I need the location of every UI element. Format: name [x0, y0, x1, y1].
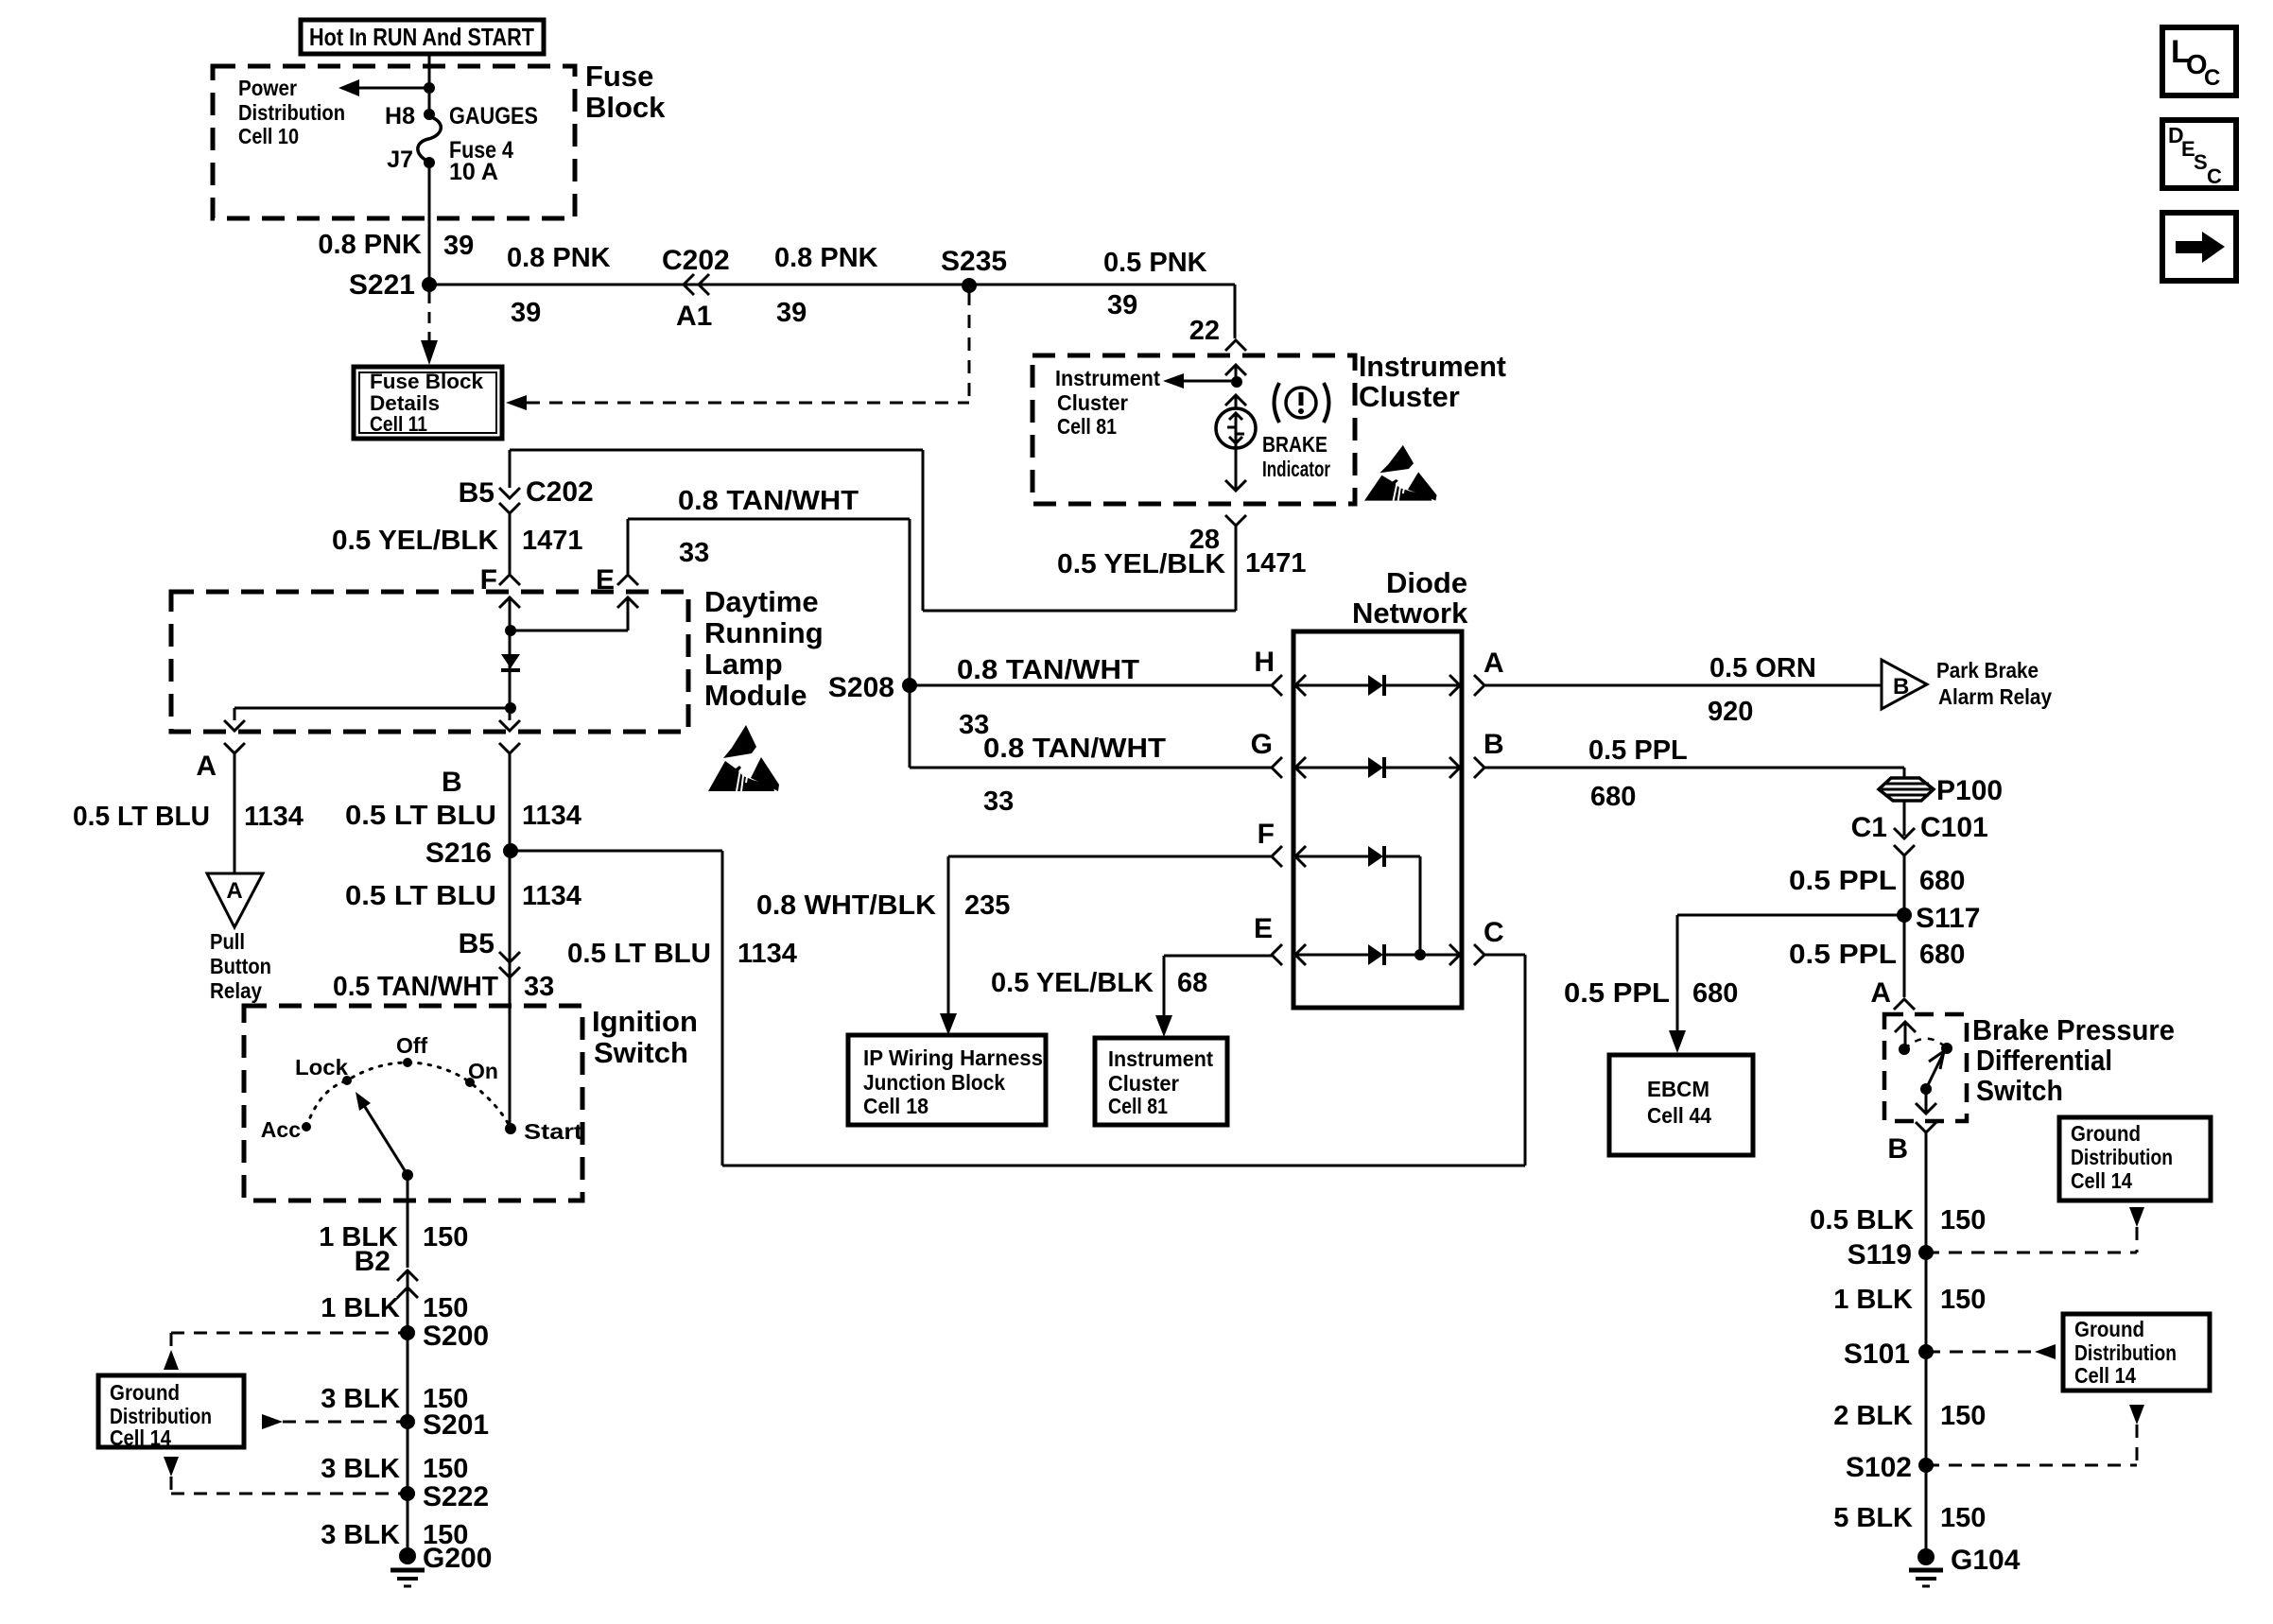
- svg-text:Instrument: Instrument: [1108, 1046, 1213, 1071]
- svg-text:P100: P100: [1936, 775, 2003, 806]
- long bottom run: [722, 1165, 1525, 1167]
- fuse GAUGES Fuse 4 10A element: [418, 116, 441, 162]
- ignition switch dashed outline: [244, 1006, 582, 1201]
- svg-text:Lock: Lock: [295, 1055, 348, 1080]
- internal wire to pin A: [234, 707, 511, 710]
- svg-text:1471: 1471: [1245, 548, 1307, 579]
- svg-text:0.5 LT BLU: 0.5 LT BLU: [345, 881, 496, 911]
- splice S216: [503, 843, 518, 858]
- svg-text:F: F: [1258, 819, 1275, 850]
- arrow at DRL pin A: [224, 720, 245, 731]
- svg-text:S101: S101: [1844, 1339, 1910, 1370]
- wire 0.8 PNK 39 from fuse: [428, 163, 431, 285]
- svg-text:EBCM: EBCM: [1647, 1077, 1709, 1101]
- svg-text:B5: B5: [459, 477, 495, 509]
- wire 0.5 PPL 680: [1903, 855, 1906, 915]
- grommet P100: [1879, 778, 1934, 801]
- wire to brake indicator lamp: [1235, 395, 1238, 409]
- wire inside DRL from E: [627, 597, 630, 631]
- connector chevron pin 28: [1225, 515, 1246, 526]
- svg-text:1 BLK: 1 BLK: [1833, 1285, 1913, 1315]
- dashed reference S101 to ground distribution: [2035, 1344, 2056, 1359]
- svg-text:S117: S117: [1916, 903, 1980, 934]
- internal wire through diode: [509, 631, 512, 708]
- box EBCM Cell 44: [1609, 1055, 1753, 1155]
- svg-text:1 BLK: 1 BLK: [321, 1293, 400, 1323]
- svg-text:Power: Power: [238, 76, 297, 100]
- svg-text:S208: S208: [828, 672, 894, 703]
- svg-text:Cell 44: Cell 44: [1647, 1103, 1711, 1128]
- svg-text:Network: Network: [1352, 596, 1468, 630]
- internal wire E to F node: [510, 630, 628, 632]
- ground G104: [1917, 1548, 1935, 1565]
- arrow at switch exit: [1916, 1103, 1936, 1114]
- wire 0.5 YEL/BLK 68 from diode pin E: [1164, 955, 1272, 958]
- svg-text:G104: G104: [1951, 1545, 2021, 1576]
- svg-text:Junction Block: Junction Block: [863, 1070, 1005, 1095]
- svg-text:1134: 1134: [244, 802, 304, 832]
- wire 0.8 TAN/WHT 33 to diode pin G: [910, 767, 1272, 769]
- arrow into instrument cluster box: [1155, 1015, 1172, 1037]
- svg-text:680: 680: [1919, 940, 1965, 970]
- svg-text:Button: Button: [210, 954, 271, 978]
- svg-text:0.5 YEL/BLK: 0.5 YEL/BLK: [991, 968, 1154, 998]
- svg-text:0.8 PNK: 0.8 PNK: [774, 243, 878, 273]
- arrow into EBCM: [1669, 1030, 1686, 1053]
- svg-text:J7: J7: [387, 147, 413, 173]
- brake pressure differential switch dashed outline: [1884, 1014, 1967, 1121]
- svg-text:Cluster: Cluster: [1108, 1071, 1179, 1096]
- svg-text:Alarm Relay: Alarm Relay: [1938, 684, 2052, 709]
- connector chevron at switch pin A: [1894, 999, 1915, 1010]
- internal arrow to cluster text: [1163, 373, 1184, 389]
- junction in cluster: [1231, 376, 1242, 388]
- splice S101: [1918, 1344, 1934, 1359]
- svg-text:B2: B2: [355, 1246, 390, 1277]
- pin B connector chevron: [499, 743, 520, 753]
- wire to pin B: [1925, 1089, 1928, 1112]
- dotted selector arc: [306, 1063, 511, 1129]
- svg-text:B: B: [1893, 674, 1909, 700]
- svg-text:Start: Start: [524, 1119, 582, 1144]
- wire drop: [721, 851, 724, 1166]
- svg-text:Cell 81: Cell 81: [1057, 414, 1117, 439]
- svg-text:0.8 PNK: 0.8 PNK: [318, 230, 422, 260]
- svg-text:C202: C202: [526, 476, 594, 508]
- wire 0.5 PPL 680 branch to EBCM: [1677, 914, 1904, 917]
- svg-text:0.5 PPL: 0.5 PPL: [1789, 940, 1897, 970]
- riser to diode pin C: [1524, 955, 1527, 1166]
- svg-text:S222: S222: [423, 1481, 489, 1512]
- arrow into IP junction block: [940, 1013, 957, 1035]
- svg-text:Cell 11: Cell 11: [370, 412, 427, 436]
- box IP Wiring Harness Junction Block Cell 18: [848, 1035, 1046, 1125]
- svg-text:S216: S216: [425, 838, 492, 869]
- svg-text:Instrument: Instrument: [1359, 350, 1506, 383]
- brake warning symbol ((!)): [1275, 383, 1280, 423]
- wire 0.5 LT BLU 1134 to ignition switch: [509, 753, 512, 1006]
- svg-text:Indicator: Indicator: [1262, 457, 1330, 481]
- svg-text:39: 39: [1107, 290, 1137, 320]
- switch blade: [1926, 1052, 1944, 1089]
- svg-text:Distribution: Distribution: [238, 100, 345, 125]
- svg-text:B: B: [1887, 1133, 1908, 1165]
- splice S222: [400, 1486, 415, 1501]
- switch blade arrow to Lock: [360, 1099, 408, 1175]
- svg-text:0.5 YEL/BLK: 0.5 YEL/BLK: [1057, 549, 1225, 579]
- svg-text:0.5 PPL: 0.5 PPL: [1789, 866, 1897, 896]
- svg-text:Ground: Ground: [2071, 1121, 2141, 1146]
- in-line connector chevrons B2: [397, 1270, 418, 1281]
- wire 0.5 LT BLU 1134 to pull button relay: [234, 753, 236, 873]
- svg-text:0.8 PNK: 0.8 PNK: [507, 243, 611, 273]
- svg-text:Fuse Block: Fuse Block: [370, 370, 484, 393]
- diode network box: [1293, 631, 1462, 1008]
- svg-text:S201: S201: [423, 1409, 489, 1441]
- in-line connector C202 pin A1: [684, 274, 694, 295]
- svg-text:920: 920: [1708, 697, 1753, 727]
- box Ground Distribution Cell 14 (upper right): [2059, 1117, 2211, 1201]
- box Ground Distribution Cell 14 (lower right): [2063, 1314, 2210, 1391]
- switch fixed contact: [1941, 1043, 1952, 1054]
- svg-text:GAUGES: GAUGES: [449, 103, 538, 130]
- splice S208: [902, 678, 917, 693]
- wire 1 BLK 150 ground chain: [407, 1270, 409, 1556]
- svg-text:0.8 WHT/BLK: 0.8 WHT/BLK: [756, 890, 936, 921]
- wire 0.8 TAN/WHT riser: [909, 519, 911, 768]
- instrument cluster dashed outline: [1032, 355, 1355, 504]
- svg-text:C101: C101: [1920, 812, 1988, 843]
- svg-text:E: E: [1254, 913, 1273, 944]
- terminal J7: [424, 157, 435, 168]
- svg-text:33: 33: [679, 538, 709, 568]
- svg-text:1134: 1134: [522, 801, 581, 831]
- svg-text:0.8 TAN/WHT: 0.8 TAN/WHT: [678, 486, 859, 516]
- svg-text:Distribution: Distribution: [2071, 1145, 2173, 1169]
- svg-text:C: C: [2204, 65, 2220, 91]
- dashed reference wire from S235 to Fuse Block Details: [506, 395, 527, 410]
- wire 0.8 TAN/WHT 33 from pin E: [628, 518, 910, 521]
- svg-text:1134: 1134: [737, 939, 797, 969]
- dashed reference S119 to ground distribution: [1926, 1252, 2137, 1254]
- dashed reference S201 to ground distribution: [262, 1414, 283, 1429]
- svg-text:S102: S102: [1846, 1452, 1912, 1483]
- wire to Start contact: [509, 1006, 512, 1129]
- svg-text:0.5 TAN/WHT: 0.5 TAN/WHT: [333, 972, 498, 1002]
- svg-text:On: On: [468, 1059, 498, 1083]
- wire 0.8 PNK 39 run to instrument cluster: [429, 284, 1235, 286]
- svg-text:H8: H8: [385, 103, 415, 130]
- svg-text:0.5 LT BLU: 0.5 LT BLU: [345, 801, 496, 831]
- svg-text:S221: S221: [349, 269, 415, 301]
- svg-text:C1: C1: [1851, 812, 1887, 843]
- arrow at cluster exit: [1225, 480, 1246, 491]
- svg-text:0.5 LT BLU: 0.5 LT BLU: [73, 802, 210, 832]
- dashed reference S222 to ground distribution: [164, 1457, 179, 1477]
- svg-text:39: 39: [443, 231, 474, 261]
- svg-text:G: G: [1251, 729, 1273, 760]
- svg-text:A: A: [1870, 977, 1891, 1009]
- dashed drop to Fuse Block Details: [428, 292, 431, 342]
- svg-text:150: 150: [423, 1293, 468, 1323]
- svg-text:39: 39: [511, 298, 541, 328]
- svg-text:Hot In RUN And START: Hot In RUN And START: [309, 23, 534, 51]
- dashed travel arc: [1904, 1039, 1947, 1049]
- wire drop to cluster: [1163, 956, 1166, 1021]
- svg-text:Switch: Switch: [1976, 1074, 2063, 1107]
- svg-text:0.5 PNK: 0.5 PNK: [1103, 248, 1207, 278]
- svg-text:1134: 1134: [522, 881, 581, 911]
- wire 1 BLK 150 out of ignition switch: [407, 1175, 409, 1268]
- diode row H: [1272, 675, 1282, 696]
- wire run back to DRL module pin F: [923, 610, 1236, 613]
- ESD sensitivity icon (instrument cluster): [1364, 445, 1437, 501]
- svg-text:Relay: Relay: [210, 978, 262, 1003]
- svg-text:A: A: [196, 751, 217, 782]
- box Fuse Block Details Cell 11: [354, 367, 502, 439]
- internal junction to A: [505, 702, 516, 714]
- svg-text:3 BLK: 3 BLK: [321, 1384, 400, 1414]
- svg-text:Running: Running: [704, 616, 824, 649]
- DRL pin F connector chevrons: [499, 575, 520, 585]
- junction F-E inside diode network: [1414, 949, 1426, 960]
- label box: Hot In RUN And START: [301, 20, 544, 54]
- svg-text:Cell 14: Cell 14: [2071, 1168, 2132, 1193]
- svg-text:0.8 TAN/WHT: 0.8 TAN/WHT: [983, 734, 1166, 764]
- wire to DRL pin F: [509, 513, 512, 574]
- svg-text:150: 150: [1940, 1285, 1986, 1315]
- wire: Hot feed into fuse block: [428, 54, 431, 114]
- svg-text:BRAKE: BRAKE: [1262, 432, 1327, 457]
- fuse block dashed outline: [213, 66, 575, 218]
- svg-text:Cell 14: Cell 14: [2074, 1363, 2136, 1388]
- svg-text:Lamp: Lamp: [704, 648, 783, 681]
- svg-text:Park Brake: Park Brake: [1936, 658, 2039, 682]
- internal diode: [501, 654, 520, 668]
- daytime running lamp module dashed outline: [171, 592, 688, 732]
- splice S200: [400, 1325, 415, 1340]
- wire inside DRL from F: [509, 597, 512, 631]
- brake indicator lamp symbol: [1216, 408, 1256, 448]
- svg-text:Cluster: Cluster: [1057, 390, 1128, 415]
- svg-text:0.5 LT BLU: 0.5 LT BLU: [567, 939, 711, 969]
- svg-text:0.5 ORN: 0.5 ORN: [1709, 653, 1816, 683]
- wire from lamp to pin 28: [1235, 443, 1238, 491]
- svg-text:3 BLK: 3 BLK: [321, 1520, 400, 1550]
- diode row E: [1272, 944, 1282, 965]
- ESD sensitivity icon (DRL): [708, 725, 779, 791]
- wire 0.5 PPL 680 to brake pressure switch: [1903, 915, 1906, 997]
- svg-text:150: 150: [1940, 1503, 1986, 1533]
- svg-text:B5: B5: [459, 928, 495, 959]
- svg-text:Ignition: Ignition: [592, 1005, 698, 1038]
- svg-text:5 BLK: 5 BLK: [1833, 1503, 1913, 1533]
- svg-text:Daytime: Daytime: [704, 585, 819, 618]
- svg-text:H: H: [1254, 647, 1275, 678]
- box Ground Distribution Cell 14 (left): [98, 1375, 244, 1447]
- junction on feed wire: [424, 82, 435, 94]
- internal drop at B: [509, 708, 512, 720]
- arrow at DRL pin B: [499, 720, 520, 731]
- in-line connector chevrons B5: [499, 952, 520, 962]
- svg-text:2 BLK: 2 BLK: [1833, 1401, 1913, 1431]
- svg-text:A: A: [226, 878, 242, 904]
- splice S119: [1918, 1245, 1934, 1260]
- wire 0.5 PPL 680 from diode pin B: [1484, 767, 1904, 769]
- svg-text:S: S: [2194, 150, 2208, 174]
- svg-text:Diode: Diode: [1386, 566, 1467, 599]
- switch contact from pin A: [1895, 1022, 1916, 1032]
- in-line connector C202 pin B5: [499, 488, 520, 498]
- wire drop to pin E: [627, 519, 630, 574]
- wire 0.5 YEL/BLK 1471 drop: [1235, 526, 1238, 611]
- wire drop to cluster pin 22: [1234, 285, 1237, 338]
- arrow to Power Distribution: [338, 79, 359, 96]
- svg-text:1471: 1471: [522, 526, 583, 556]
- svg-text:Cell 18: Cell 18: [863, 1094, 928, 1118]
- terminal H8: [424, 109, 435, 120]
- svg-text:68: 68: [1177, 968, 1207, 998]
- switch common: [1920, 1083, 1932, 1095]
- svg-text:C: C: [1484, 917, 1504, 948]
- internal junction: [505, 625, 516, 636]
- ignition switch position dots and labels: [302, 1122, 311, 1132]
- svg-text:Cluster: Cluster: [1359, 380, 1460, 413]
- legend box arrow: [2162, 213, 2236, 281]
- svg-text:Cell 14: Cell 14: [110, 1425, 171, 1450]
- svg-text:Module: Module: [704, 679, 807, 712]
- svg-text:150: 150: [423, 1454, 468, 1484]
- svg-text:G200: G200: [423, 1543, 492, 1574]
- svg-text:A: A: [1484, 648, 1504, 679]
- svg-text:680: 680: [1590, 782, 1636, 812]
- svg-text:150: 150: [1940, 1401, 1986, 1431]
- park brake alarm relay connector triangle: [1882, 660, 1927, 709]
- connector chevrons at cluster pin 22: [1225, 340, 1246, 351]
- dashed reference S200 to ground distribution: [171, 1332, 408, 1335]
- svg-text:Instrument: Instrument: [1055, 366, 1160, 390]
- splice S102: [1918, 1458, 1934, 1473]
- svg-text:B: B: [442, 767, 462, 798]
- pin A connector chevron: [224, 743, 245, 753]
- arrow on lamp feed: [1225, 395, 1246, 406]
- wire 0.5 ORN 920 to park brake alarm relay: [1484, 684, 1882, 687]
- svg-text:10 A: 10 A: [449, 159, 498, 185]
- dashed reference S102 to ground distribution: [1926, 1464, 2137, 1467]
- splice S201: [400, 1414, 415, 1429]
- wire 0.8 WHT/BLK 235 from diode pin F: [948, 855, 1272, 858]
- svg-text:Distribution: Distribution: [2074, 1340, 2177, 1365]
- svg-text:Differential: Differential: [1976, 1044, 2112, 1077]
- internal drop at A: [234, 708, 236, 720]
- svg-text:235: 235: [964, 890, 1010, 921]
- wire into cluster: [1235, 365, 1238, 382]
- svg-text:150: 150: [423, 1222, 468, 1253]
- svg-text:33: 33: [983, 786, 1014, 817]
- diode row F: [1272, 846, 1282, 867]
- connector chevron pin B: [1916, 1122, 1936, 1132]
- svg-text:A1: A1: [676, 301, 712, 332]
- wire drop to P100: [1903, 768, 1906, 779]
- svg-text:Ground: Ground: [2074, 1317, 2144, 1341]
- svg-text:39: 39: [776, 298, 807, 328]
- svg-text:Acc: Acc: [261, 1117, 301, 1142]
- svg-text:Cell 10: Cell 10: [238, 124, 299, 148]
- svg-text:IP Wiring Harness: IP Wiring Harness: [863, 1045, 1043, 1070]
- wire to connector C101: [1903, 800, 1906, 836]
- diode row G: [1272, 757, 1282, 778]
- wire from S216 toward diode network: [511, 850, 722, 853]
- DRL pin E connector chevrons: [617, 575, 638, 585]
- svg-text:33: 33: [524, 972, 554, 1002]
- svg-text:Ground: Ground: [110, 1380, 180, 1405]
- wire BLK 150 ground chain: [1925, 1132, 1928, 1557]
- svg-text:0.5 BLK: 0.5 BLK: [1810, 1205, 1914, 1235]
- svg-text:680: 680: [1692, 978, 1738, 1009]
- svg-text:B: B: [1484, 729, 1504, 760]
- wire drop to junction block: [947, 856, 950, 1019]
- svg-text:S200: S200: [423, 1321, 489, 1352]
- svg-text:S119: S119: [1848, 1239, 1912, 1270]
- svg-text:S235: S235: [941, 246, 1007, 277]
- svg-text:3 BLK: 3 BLK: [321, 1454, 400, 1484]
- svg-text:Cell 81: Cell 81: [1108, 1094, 1168, 1118]
- svg-text:680: 680: [1919, 866, 1965, 896]
- svg-text:Off: Off: [396, 1033, 428, 1058]
- svg-text:22: 22: [1189, 316, 1220, 346]
- svg-text:0.5 PPL: 0.5 PPL: [1588, 735, 1688, 766]
- legend box DESC: [2162, 120, 2236, 188]
- connector C1/C101 chevrons: [1894, 828, 1915, 838]
- pull button relay triangle: [207, 873, 263, 927]
- svg-text:C202: C202: [662, 245, 730, 276]
- wire 0.8 TAN/WHT 33 to diode pin H: [910, 684, 1272, 687]
- box Instrument Cluster Cell 81: [1095, 1038, 1227, 1125]
- switch pivot: [402, 1169, 413, 1181]
- legend box LOC: [2162, 27, 2236, 95]
- svg-text:0.5 YEL/BLK: 0.5 YEL/BLK: [332, 526, 498, 556]
- svg-text:150: 150: [1940, 1205, 1986, 1235]
- splice S221: [422, 277, 437, 292]
- svg-text:0.5 PPL: 0.5 PPL: [1564, 978, 1670, 1009]
- svg-text:Brake Pressure: Brake Pressure: [1972, 1013, 2175, 1046]
- svg-text:0.8 TAN/WHT: 0.8 TAN/WHT: [957, 655, 1139, 685]
- splice S117: [1897, 907, 1912, 923]
- svg-text:C: C: [2207, 164, 2222, 188]
- svg-text:Switch: Switch: [594, 1036, 688, 1069]
- svg-text:Fuse: Fuse: [585, 60, 653, 93]
- svg-text:Block: Block: [585, 91, 666, 124]
- svg-text:Pull: Pull: [210, 929, 245, 954]
- wire from diode pin C: [1484, 954, 1525, 957]
- ground G200: [399, 1547, 416, 1564]
- splice S235: [962, 278, 977, 293]
